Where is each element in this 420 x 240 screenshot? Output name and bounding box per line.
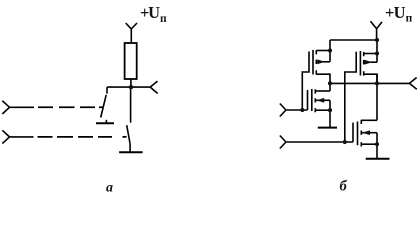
svg-text:+U: +U — [140, 3, 160, 22]
svg-text:б: б — [340, 179, 348, 195]
svg-text:а: а — [106, 181, 113, 196]
svg-text:+U: +U — [385, 3, 406, 22]
svg-text:п: п — [406, 13, 413, 25]
svg-text:п: п — [160, 13, 167, 25]
